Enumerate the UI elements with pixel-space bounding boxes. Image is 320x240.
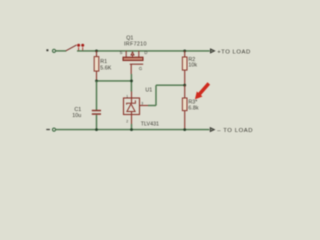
node R3 bottom xyxy=(183,128,186,131)
input terminal top-left xyxy=(52,49,55,52)
node R2 top xyxy=(183,50,186,53)
svg-text:U1: U1 xyxy=(145,88,152,94)
resistor R1 xyxy=(94,51,99,81)
channel bar xyxy=(123,57,143,60)
mosfet Q1 xyxy=(123,51,143,74)
wire gate vertical xyxy=(130,74,132,92)
node gate junction xyxy=(130,80,133,83)
pin K top xyxy=(131,92,133,104)
svg-text:10k: 10k xyxy=(188,62,197,68)
pin S drop xyxy=(125,51,127,58)
svg-text:– TO LOAD: – TO LOAD xyxy=(217,128,253,134)
svg-text:IRF7210: IRF7210 xyxy=(124,42,147,48)
wire bottom rail xyxy=(56,129,210,131)
svg-text:10u: 10u xyxy=(72,113,81,119)
svg-text:G: G xyxy=(139,66,142,71)
svg-text:S: S xyxy=(120,50,123,55)
node R1 top xyxy=(95,50,98,53)
box xyxy=(124,98,140,115)
svg-text:1: 1 xyxy=(126,94,128,98)
svg-text:D: D xyxy=(144,50,147,55)
switch contact stub right xyxy=(82,47,84,50)
node R1 bottom xyxy=(95,80,98,83)
svg-text:R3*: R3* xyxy=(188,99,197,105)
gate lead xyxy=(130,64,132,74)
zener cathode bar xyxy=(127,100,136,104)
svg-text:5.6K: 5.6K xyxy=(100,66,111,72)
pin D drop xyxy=(138,51,140,58)
annotation red arrow xyxy=(195,82,210,99)
svg-text:TLV431: TLV431 xyxy=(141,121,159,127)
svg-text:6.8k: 6.8k xyxy=(188,106,198,112)
wire top rail xyxy=(77,50,210,52)
wire gate horizontal xyxy=(97,80,132,82)
minus polarity mark xyxy=(46,129,50,130)
svg-text:R1: R1 xyxy=(100,59,107,65)
substrate arrow xyxy=(132,55,134,58)
capacitor C1 xyxy=(92,81,101,130)
shunt regulator U1 xyxy=(124,92,149,125)
switch contact dot right xyxy=(81,44,84,47)
pin R right xyxy=(140,105,149,107)
switch contact dot left xyxy=(77,44,80,47)
node C1 bottom xyxy=(95,128,98,131)
svg-text:3: 3 xyxy=(141,102,143,106)
resistor R3 xyxy=(182,85,187,129)
node divider junction xyxy=(183,84,186,87)
terminal arrow +TO LOAD xyxy=(211,49,215,53)
zener triangle xyxy=(127,104,135,112)
terminal arrow -TO LOAD xyxy=(210,128,214,132)
svg-text:2: 2 xyxy=(126,120,128,124)
wire ref vertical xyxy=(155,85,157,105)
switch SW lever xyxy=(66,45,77,51)
gate electrode line xyxy=(130,63,143,65)
plus polarity mark xyxy=(46,49,48,51)
wire U1 anode down xyxy=(131,124,133,130)
wire ref to divider xyxy=(156,84,185,86)
wire ref horizontal from U1 xyxy=(148,105,156,107)
svg-text:Q1: Q1 xyxy=(126,35,133,41)
svg-text:C1: C1 xyxy=(74,107,81,113)
resistor R2 xyxy=(182,51,187,85)
svg-text:+TO LOAD: +TO LOAD xyxy=(217,49,251,55)
input terminal bottom-left xyxy=(52,128,55,131)
pin A bottom xyxy=(131,112,133,125)
switch contact stub left xyxy=(78,47,80,50)
node U1 anode xyxy=(130,128,133,131)
wire top rail left stub xyxy=(56,50,66,52)
